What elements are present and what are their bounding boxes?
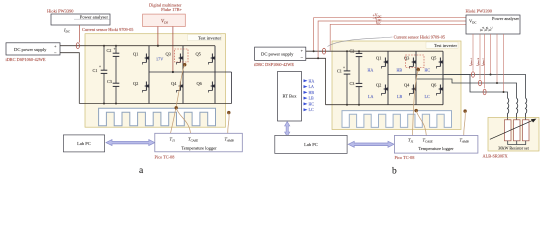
callout curve current sensor (b) (328, 37, 393, 47)
thermocouple wire T_AMB (a) (228, 113, 229, 134)
wire DC- bottom bus (a) (79, 103, 231, 105)
svg-text:Q3: Q3 (166, 52, 172, 57)
junction VDS taps (a) (157, 45, 174, 73)
svg-text:iDRC DSP1060-42WE: iDRC DSP1060-42WE (6, 57, 46, 62)
thermocouple junction T_CASE (a) (175, 106, 178, 109)
label Test inverter (b) (426, 42, 458, 48)
capacitor C1 (a) (93, 46, 108, 104)
svg-text:HA: HA (368, 68, 374, 73)
variable-load diagonal arrow (b) (490, 119, 537, 140)
svg-text:Q4: Q4 (404, 83, 410, 88)
transistor Q2 (133, 81, 149, 93)
svg-text:C1: C1 (337, 69, 342, 74)
USB double arrow (b) (348, 141, 394, 147)
wire Iphase B riser (b) (479, 34, 481, 79)
gate signal HB (304, 90, 315, 95)
gate signal LB (304, 96, 314, 101)
wire -VDC sense (b) (318, 21, 466, 58)
temperature logger box (b) (394, 136, 478, 154)
wire phase midpoint to load (a) (149, 71, 232, 73)
svg-text:RT Box: RT Box (282, 94, 297, 99)
transistor Q6 (b) (431, 83, 443, 96)
heatsink (b) (342, 111, 452, 128)
gate signal HA (304, 78, 315, 83)
svg-text:Q3: Q3 (404, 56, 410, 61)
thermocouple junction T_CASE (b) (415, 109, 418, 112)
svg-text:DC power supply: DC power supply (261, 52, 294, 57)
Lab PC box (b) (275, 135, 347, 153)
wire analyser to current sensor (a) (79, 25, 81, 43)
svg-text:17V: 17V (156, 57, 163, 62)
wire leg C (b) (442, 51, 444, 104)
DUT dashed box (a) (175, 49, 189, 62)
resistive load box (b) (488, 118, 539, 152)
wire DC- return (b) (306, 58, 326, 104)
wire load feed C (b) (507, 117, 509, 120)
svg-text:Q1: Q1 (376, 56, 381, 61)
svg-text:b: b (392, 167, 397, 177)
gate signal LA (304, 84, 314, 89)
power analyser U-PA2 (b) (466, 15, 520, 34)
svg-text:Q5: Q5 (196, 52, 202, 57)
thermocouple wire T_CASE (a) (176, 108, 190, 134)
gate signal LC (304, 107, 314, 112)
svg-text:LA: LA (309, 84, 314, 89)
thermocouple junction T_AMB (a) (227, 111, 230, 114)
transistor Q4 (b) (404, 83, 416, 96)
svg-text:Current sensor Hioki 9709-05: Current sensor Hioki 9709-05 (82, 27, 133, 32)
svg-text:HB: HB (309, 90, 315, 95)
label Test inverter (a) (188, 35, 222, 41)
svg-text:Hioki PW3390: Hioki PW3390 (47, 9, 74, 14)
transistor Q5 (b) (431, 56, 443, 69)
heatsink (a) (99, 108, 216, 126)
svg-text:C3: C3 (107, 79, 112, 84)
svg-text:−: − (54, 51, 57, 56)
svg-text:C2: C2 (350, 49, 355, 54)
resistor R-A (b) (522, 120, 529, 141)
svg-text:Fluke 17B+: Fluke 17B+ (161, 7, 182, 12)
wire DC+ bus (b) (306, 50, 443, 52)
svg-text:Q4: Q4 (171, 81, 177, 86)
transistor Q5 (196, 52, 216, 65)
thermocouple junction T_J1 (b) (417, 68, 420, 71)
svg-text:LC: LC (425, 94, 430, 99)
svg-text:HA: HA (309, 78, 315, 83)
wire Iphase C riser (b) (484, 34, 486, 88)
wire leg B (b) (415, 51, 417, 104)
transistor Q6 (197, 81, 216, 93)
svg-text:DC power supply: DC power supply (14, 47, 47, 52)
svg-text:Q1: Q1 (133, 52, 138, 57)
current sensor phase A (b) (472, 72, 475, 78)
wire VC tap riser (b) (503, 34, 505, 92)
svg-text:Temperature logger: Temperature logger (418, 146, 454, 151)
wire leg A (b) (387, 51, 389, 104)
inductor L-C (b) (508, 98, 509, 117)
svg-text:Pico TC-08: Pico TC-08 (395, 155, 415, 160)
wire +VDC sense (b) (314, 18, 466, 52)
thermocouple wire T_CASE (b) (416, 111, 426, 136)
Lab PC box (a) (63, 135, 104, 152)
svg-text:LA: LA (368, 94, 373, 99)
vertical double arrow RT Box to Lab PC (285, 122, 290, 137)
wire VA tap riser (b) (490, 34, 492, 75)
transistor Q2 (b) (376, 83, 388, 96)
junction dots bus (b) (346, 50, 360, 105)
wire DC- return (a) (60, 53, 79, 104)
temperature logger box (a) (155, 133, 243, 152)
thermocouple junction T_AMB (b) (463, 109, 466, 112)
svg-text:LB: LB (397, 94, 402, 99)
inductor L-B (b) (517, 98, 518, 117)
wire phase C (b) (443, 75, 508, 99)
wire leg A (a) (148, 46, 150, 104)
thermocouple junction T_J1 (a) (183, 63, 186, 66)
svg-text:−: − (300, 55, 303, 60)
current sensor CT2 (b) (322, 48, 325, 54)
transistor Q1 (133, 52, 149, 65)
svg-text:Pico TC-08: Pico TC-08 (155, 154, 175, 159)
current sensor phase B (b) (479, 80, 482, 86)
svg-text:Test inverter: Test inverter (198, 35, 221, 40)
label Digital multimeter Fluke 17B+ (149, 2, 183, 12)
svg-text:+: + (114, 47, 116, 51)
thermocouple wire T_J1 (b) (413, 70, 419, 136)
wire load feed A (b) (525, 117, 527, 120)
svg-text:Test inverter: Test inverter (434, 43, 457, 48)
svg-text:Q6: Q6 (431, 83, 437, 88)
svg-text:Lab PC: Lab PC (77, 141, 91, 146)
resistor R-C (b) (504, 120, 511, 141)
svg-text:iDRC DSP1060-42WE: iDRC DSP1060-42WE (254, 62, 294, 67)
svg-text:Hioki PW3390: Hioki PW3390 (466, 8, 493, 13)
svg-text:Q2: Q2 (376, 83, 381, 88)
wire IDC sense (b) (330, 24, 466, 50)
svg-text:LC: LC (309, 107, 314, 112)
svg-text:Lab PC: Lab PC (304, 142, 318, 147)
capacitor C2 (b) (350, 49, 363, 75)
junction dots bus (a) (103, 45, 117, 105)
svg-text:C3: C3 (350, 81, 355, 86)
wire Iphase A riser (b) (472, 34, 474, 71)
wire phase B (b) (416, 79, 517, 98)
wire VDS drain sense (a) (157, 27, 159, 46)
wire leg B (a) (182, 46, 184, 104)
svg-text:Power analyser: Power analyser (492, 16, 519, 21)
svg-text:Power analyser: Power analyser (80, 14, 109, 19)
svg-text:HB: HB (397, 68, 403, 73)
transistor Q3 (DUT) (166, 52, 184, 65)
capacitor C1 (b) (337, 51, 350, 104)
wire VDS source sense (a) (172, 27, 174, 73)
wire load return loop (a) (231, 72, 233, 104)
svg-text:ALB-SR30FX: ALB-SR30FX (483, 153, 509, 158)
transistor Q4 (171, 81, 183, 93)
svg-text:Q6: Q6 (197, 81, 203, 86)
wire load feed B (b) (516, 117, 518, 120)
test inverter enclosure (a) (85, 34, 226, 128)
svg-text:C1: C1 (93, 68, 98, 73)
test inverter enclosure (b) (332, 41, 461, 130)
capacitor C3 (b) (350, 75, 363, 105)
capacitor C2 (a) (107, 46, 120, 72)
wire phase A (b) (388, 75, 526, 99)
current sensor phase C (b) (483, 89, 486, 95)
wire load star point (b) (508, 141, 526, 145)
svg-text:HC: HC (425, 68, 431, 73)
svg-text:+: + (343, 65, 345, 69)
current sensor CT1 (a) (76, 43, 79, 49)
wire DC- bottom bus (b) (326, 104, 444, 106)
svg-text:Q2: Q2 (133, 81, 138, 86)
svg-text:LB: LB (309, 96, 314, 101)
power analyser U-PA1 (a) (51, 14, 110, 25)
wire VB tap riser (b) (496, 34, 498, 83)
svg-text:Current sensor Hioki 9709-05: Current sensor Hioki 9709-05 (394, 34, 445, 39)
transistor Q1 (b) (376, 56, 388, 69)
thermocouple wire T_AMB (b) (464, 111, 466, 135)
svg-text:+: + (99, 65, 101, 69)
svg-text:30kW Resistor set: 30kW Resistor set (498, 145, 529, 150)
RT Box controller (278, 72, 302, 122)
transistor Q3 (b, DUT) (404, 56, 416, 69)
wire DC+ bus (a) (60, 45, 215, 47)
capacitor C3 (a) (107, 72, 119, 104)
svg-text:HC: HC (309, 101, 315, 106)
svg-text:Q5: Q5 (431, 56, 437, 61)
gate signal HC (304, 101, 315, 106)
svg-text:Temperature logger: Temperature logger (181, 145, 217, 150)
multimeter V_DS box (a) (143, 14, 186, 26)
wire leg C (a) (214, 46, 216, 104)
DC power supply PS2 (b) (255, 47, 306, 60)
svg-text:VDS: VDS (161, 19, 168, 24)
junction dots sense taps (b) (313, 50, 320, 59)
resistor R-B (b) (513, 120, 520, 141)
junction dots V taps (b) (490, 74, 505, 94)
thermocouple wire T_J1 (a) (171, 65, 185, 134)
inductor L-A (b) (526, 98, 527, 117)
svg-text:C2: C2 (107, 48, 112, 53)
DC power supply PS1 (a) (6, 43, 60, 56)
DUT dashed box (b) (406, 55, 425, 68)
USB double arrow (a) (106, 140, 155, 146)
